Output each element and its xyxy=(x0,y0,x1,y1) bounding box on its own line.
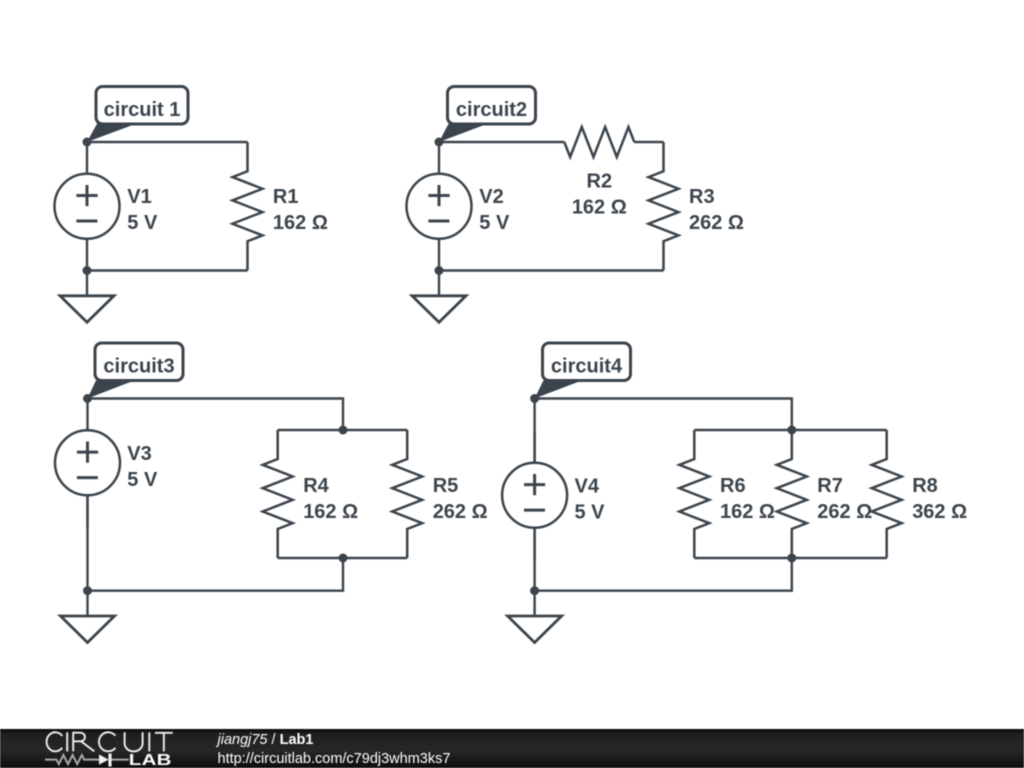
svg-text:circuit2: circuit2 xyxy=(456,99,527,121)
ground xyxy=(508,591,562,643)
wire V4 lower lead xyxy=(533,528,535,591)
svg-text:262 Ω: 262 Ω xyxy=(433,501,488,523)
node dot circuit3 source bottom xyxy=(83,586,92,595)
svg-text:circuit4: circuit4 xyxy=(551,356,623,378)
svg-text:362 Ω: 362 Ω xyxy=(912,501,967,523)
svg-text:R1: R1 xyxy=(273,186,299,208)
node dot circuit2 bottom xyxy=(435,266,444,275)
node flag circuit3 xyxy=(88,343,184,399)
resistor R5 xyxy=(392,430,422,558)
svg-text:162 Ω: 162 Ω xyxy=(303,501,358,523)
junction dot circuit3 rail top xyxy=(339,426,348,435)
logo letter T xyxy=(155,733,173,752)
svg-text:R2: R2 xyxy=(587,171,613,193)
ground xyxy=(412,271,466,323)
wire V3 lower lead xyxy=(86,495,88,590)
wire circuit3 parallel bottom rail xyxy=(278,557,408,559)
logo diode symbol xyxy=(99,754,109,764)
svg-text:R4: R4 xyxy=(303,475,329,497)
svg-text:5 V: 5 V xyxy=(575,501,606,523)
wire circuit2 top left xyxy=(439,141,564,143)
ground xyxy=(61,591,115,643)
svg-text:R3: R3 xyxy=(689,186,715,208)
logo letter R xyxy=(73,733,94,752)
svg-text:http://circuitlab.com/c79dj3wh: http://circuitlab.com/c79dj3whm3ks7 xyxy=(218,751,451,767)
resistor R7 xyxy=(777,430,807,558)
svg-text:V2: V2 xyxy=(479,186,503,208)
wire circuit4 top xyxy=(535,399,792,431)
svg-text:262 Ω: 262 Ω xyxy=(817,501,872,523)
svg-text:5 V: 5 V xyxy=(479,212,510,234)
svg-text:R7: R7 xyxy=(817,475,843,497)
svg-text:162 Ω: 162 Ω xyxy=(720,501,775,523)
node dot circuit3 source top xyxy=(83,394,92,403)
wire circuit1 top rail xyxy=(87,141,248,143)
svg-text:162 Ω: 162 Ω xyxy=(572,197,627,219)
resistor R6 xyxy=(679,430,709,558)
logo CIRCUIT letter C1 xyxy=(47,732,63,751)
junction dot circuit3 rail bottom xyxy=(339,554,348,563)
svg-text:V3: V3 xyxy=(127,443,151,465)
wire circuit4 parallel bottom rail xyxy=(694,557,886,559)
svg-text:LAB: LAB xyxy=(129,750,172,768)
node dot circuit2 top xyxy=(435,138,444,147)
svg-text:5 V: 5 V xyxy=(127,469,158,491)
node flag circuit2 xyxy=(439,87,536,143)
node dot circuit4 source top xyxy=(530,394,539,403)
svg-text:R8: R8 xyxy=(912,475,938,497)
node dot circuit1 bottom xyxy=(83,266,92,275)
wire V4 upper lead xyxy=(533,399,535,463)
svg-text:262 Ω: 262 Ω xyxy=(689,212,744,234)
wire circuit4 parallel top rail xyxy=(694,429,886,431)
wire circuit4 bottom xyxy=(535,558,792,591)
junction dot circuit4 rail top xyxy=(787,426,796,435)
logo letter I1 xyxy=(66,732,68,751)
resistor R4 xyxy=(263,430,293,558)
wire circuit3 top xyxy=(88,399,344,431)
wire circuit2 top right corner xyxy=(634,141,663,143)
voltage source V3 xyxy=(55,399,120,527)
svg-text:162 Ω: 162 Ω xyxy=(273,212,328,234)
svg-text:V1: V1 xyxy=(127,186,151,208)
resistor R8 xyxy=(872,430,902,558)
svg-text:jiangj75 / Lab1: jiangj75 / Lab1 xyxy=(216,732,314,748)
svg-text:R5: R5 xyxy=(433,475,459,497)
node flag circuit4 xyxy=(535,343,631,399)
logo letter I2 xyxy=(148,732,150,751)
voltage source V1 xyxy=(55,142,120,270)
node dot circuit4 source bottom xyxy=(530,586,539,595)
logo resistor squiggle xyxy=(45,755,99,764)
wire circuit3 parallel top rail xyxy=(278,429,408,431)
resistor R3 xyxy=(649,142,679,271)
resistor R1 xyxy=(233,142,263,271)
logo letter U xyxy=(125,732,143,751)
voltage source V2 xyxy=(407,142,472,270)
voltage source V4 xyxy=(502,431,567,559)
svg-text:5 V: 5 V xyxy=(127,212,158,234)
svg-text:circuit3: circuit3 xyxy=(103,356,174,378)
footer bar xyxy=(0,729,1024,768)
svg-text:circuit 1: circuit 1 xyxy=(104,99,181,121)
node dot circuit1 top xyxy=(83,138,92,147)
svg-text:V4: V4 xyxy=(575,475,600,497)
node flag circuit 1 xyxy=(87,87,188,143)
wire circuit3 bottom xyxy=(88,558,344,591)
ground xyxy=(60,271,114,323)
wire circuit2 bottom rail xyxy=(439,269,664,271)
svg-text:R6: R6 xyxy=(720,475,746,497)
logo wire to LAB xyxy=(112,759,129,761)
junction dot circuit4 rail bottom xyxy=(787,554,796,563)
wire circuit1 bottom rail xyxy=(87,269,248,271)
logo letter C2 xyxy=(99,732,115,751)
resistor R2 xyxy=(564,127,634,157)
